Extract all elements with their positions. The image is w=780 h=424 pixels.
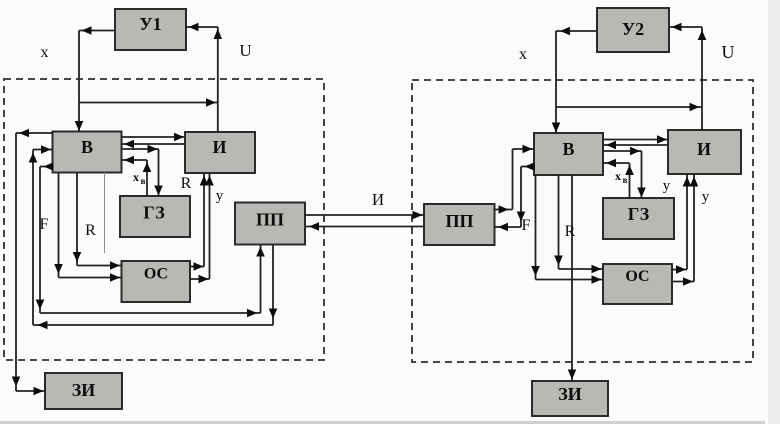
wire OS2 to I2 line y lower — [672, 175, 698, 286]
wire V1 bottom to OS1 upper input — [73, 173, 121, 270]
wire OS2 to I2 line y upper — [672, 175, 691, 274]
wire OS1 to I1 line y — [190, 174, 214, 284]
wire PP1 bottom back left and up into V1 — [29, 145, 278, 329]
block OS2 (ОС) — [603, 264, 672, 304]
svg-text:в: в — [141, 176, 146, 186]
label F left — [40, 216, 49, 233]
wire U1 output x to V1 top — [75, 26, 115, 131]
svg-text:ОС: ОС — [144, 266, 168, 283]
label U right — [722, 42, 735, 62]
svg-text:В: В — [562, 139, 574, 159]
wire I2 to V2 — [603, 141, 668, 150]
wire faint R stub below V1 — [104, 173, 106, 254]
label R lower left — [85, 222, 96, 239]
wire V2 to GZ2 — [603, 147, 646, 198]
svg-text:ГЗ: ГЗ — [143, 203, 165, 223]
wire U2 output x to V2 top — [552, 27, 597, 133]
block OS1 (ОС) — [122, 261, 191, 302]
svg-text:ЗИ: ЗИ — [72, 380, 96, 400]
label y near I1 — [216, 188, 224, 204]
block I2 (И) — [668, 130, 741, 174]
label F right — [522, 217, 531, 234]
svg-text:в: в — [623, 175, 628, 185]
wire PP2 right up into V2 — [495, 145, 535, 214]
svg-text:x: x — [615, 169, 621, 183]
block PP2 (ПП) — [424, 204, 495, 245]
svg-text:ПП: ПП — [256, 210, 284, 230]
svg-text:И: И — [372, 190, 384, 209]
wire PP2 to PP1 channel return — [305, 222, 424, 231]
svg-text:У2: У2 — [622, 19, 644, 39]
wire I1 feedback U up to U1 — [186, 23, 222, 132]
label y right lower — [702, 189, 710, 205]
block ZI2 (ЗИ) — [532, 381, 608, 416]
svg-text:x: x — [41, 44, 49, 61]
dashed boundary box of station 1 — [4, 79, 324, 360]
svg-text:R: R — [181, 175, 192, 192]
wire branch x to I1 input line — [79, 98, 217, 107]
svg-text:F: F — [40, 216, 49, 233]
block PP1 (ПП) — [235, 203, 305, 245]
label U left — [239, 41, 251, 60]
block I1 (И) — [185, 132, 255, 173]
block GZ2 (ГЗ) — [603, 198, 674, 239]
label R near I1 — [181, 175, 192, 192]
label x right — [519, 46, 527, 63]
svg-text:И: И — [212, 137, 226, 157]
svg-text:ЗИ: ЗИ — [558, 384, 582, 404]
svg-text:R: R — [85, 222, 96, 239]
wire I2 feedback U up to U2 — [669, 23, 706, 130]
wire GZ2 to V2 — [603, 159, 634, 198]
wire V1 bottom to OS1 lower input — [54, 173, 121, 282]
svg-text:у: у — [702, 189, 710, 205]
block V2 (В) — [534, 133, 603, 175]
svg-text:ПП: ПП — [445, 211, 473, 231]
svg-text:У1: У1 — [139, 14, 161, 34]
svg-text:И: И — [697, 139, 711, 159]
block ZI1 (ЗИ) — [45, 373, 122, 409]
wire I1 to V1 — [122, 140, 186, 149]
svg-text:F: F — [522, 217, 531, 234]
wire V1 to GZ1 — [122, 145, 163, 196]
block GZ1 (ГЗ) — [120, 196, 190, 237]
svg-text:x: x — [133, 170, 139, 184]
wire V1 line F down and right to PP1 bottom — [36, 162, 265, 317]
wire V1 around left down to ZI1 — [12, 129, 53, 396]
label xv right — [615, 169, 628, 185]
label x left — [41, 44, 49, 61]
svg-text:x: x — [519, 46, 527, 63]
label R right — [565, 223, 576, 240]
wire branch x to I2 input line — [556, 103, 701, 112]
wire OS1 to I1 line R — [190, 174, 208, 271]
dashed boundary box of station 2 — [412, 80, 753, 362]
label xv left — [133, 170, 146, 186]
svg-text:В: В — [81, 137, 93, 157]
label y right upper — [663, 178, 671, 194]
wire V2 bottom to OS2 lower input — [531, 175, 602, 284]
label I channel center — [372, 190, 384, 209]
svg-text:ОС: ОС — [625, 268, 649, 285]
block U2 (У2) — [597, 8, 669, 52]
wire V1 to I1 — [122, 133, 186, 142]
svg-text:у: у — [216, 188, 224, 204]
wire GZ1 to V1 — [122, 156, 152, 196]
wire V2 line F left down into PP2 — [495, 162, 535, 231]
wire V2 bottom to OS2 upper input — [554, 175, 602, 273]
block V1 (В) — [53, 132, 122, 173]
svg-text:U: U — [722, 42, 735, 62]
svg-text:U: U — [239, 41, 251, 60]
wire V2 line R down to ZI2 — [568, 175, 577, 381]
block U1 (У1) — [115, 9, 186, 50]
svg-text:ГЗ: ГЗ — [628, 204, 650, 224]
wire V2 to I2 — [603, 135, 668, 144]
wire PP1 to PP2 channel forward — [305, 211, 424, 220]
svg-text:у: у — [663, 178, 671, 194]
svg-text:R: R — [565, 223, 576, 240]
